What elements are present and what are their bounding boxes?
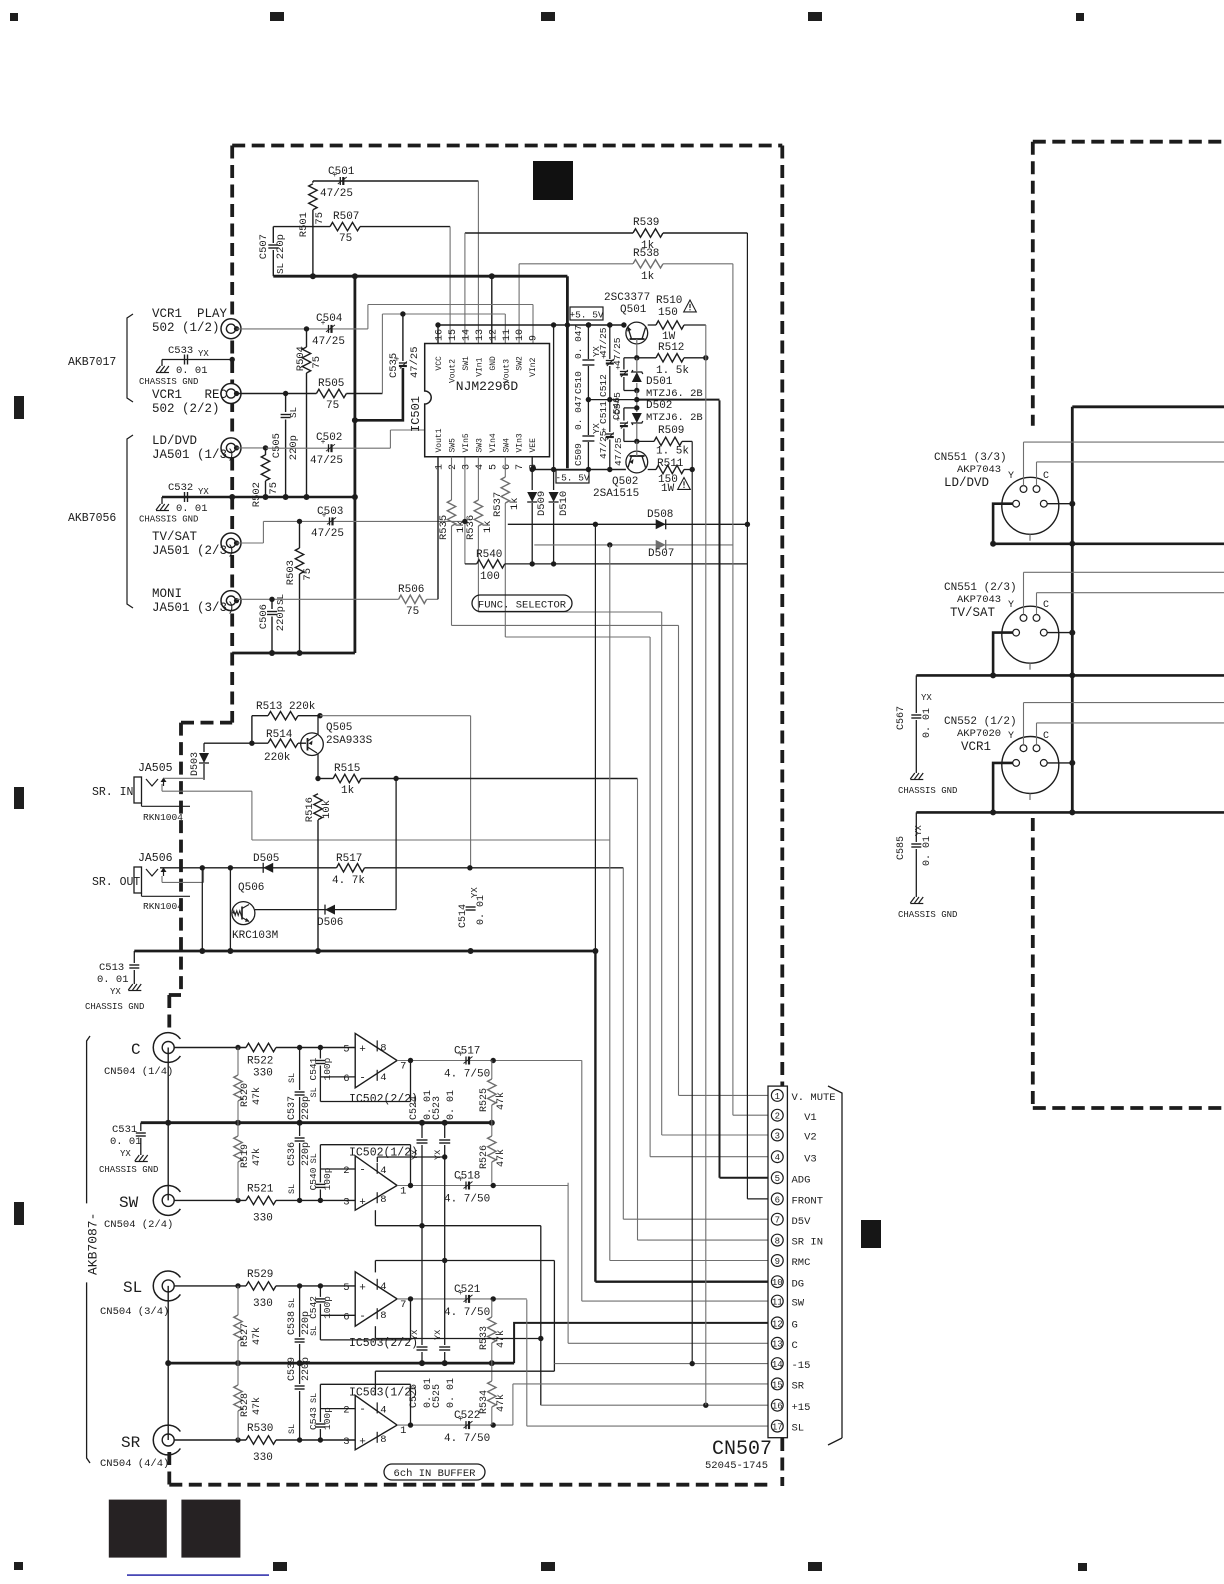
svg-text:SR. OUT: SR. OUT — [92, 876, 140, 889]
svg-text:4: 4 — [380, 1165, 386, 1177]
wire FRONT column to pin6 — [746, 233, 748, 1199]
svg-text:AKP7020: AKP7020 — [957, 728, 1001, 740]
svg-text:Q502: Q502 — [612, 476, 638, 488]
svg-text:3: 3 — [343, 1436, 349, 1448]
wire jack vertical SL-SR — [167, 1286, 169, 1440]
svg-text:1. 5k: 1. 5k — [656, 446, 689, 458]
svg-text:47/25: 47/25 — [310, 455, 343, 467]
wire TV/SAT Y — [1023, 572, 1025, 614]
svg-text:C522: C522 — [454, 1410, 480, 1422]
svg-text:GND: GND — [489, 356, 498, 371]
resistor R528 column — [237, 1363, 239, 1385]
svg-text:330: 330 — [253, 1212, 273, 1224]
svg-text:R511: R511 — [657, 458, 684, 470]
wire R512 line — [637, 357, 656, 359]
svg-text:R506: R506 — [398, 584, 424, 596]
svg-text:MTZJ6. 2B: MTZJ6. 2B — [646, 388, 703, 400]
svg-text:D508: D508 — [647, 509, 673, 521]
wire V2 column to pin3 — [661, 612, 663, 1135]
svg-text:CHASSIS GND: CHASSIS GND — [898, 910, 957, 920]
svg-text:9: 9 — [775, 1257, 780, 1267]
resistor R514 — [204, 742, 268, 744]
svg-text:RKN1004: RKN1004 — [143, 901, 183, 912]
svg-text:Vout2: Vout2 — [449, 359, 458, 383]
svg-text:YX: YX — [921, 693, 932, 703]
capacitor C541 100p — [319, 1048, 321, 1059]
svg-text:CN551 (2/3): CN551 (2/3) — [944, 582, 1017, 594]
svg-text:0. 01: 0. 01 — [446, 1378, 457, 1408]
svg-text:220p: 220p — [288, 435, 300, 460]
svg-text:C: C — [1043, 600, 1049, 611]
connector CN507 box — [768, 1086, 787, 1438]
zener D501 MTZJ6.2B — [636, 358, 638, 371]
right block dashed border — [1033, 140, 1224, 144]
CN507 pin 6 FRONT — [771, 1193, 783, 1205]
wire output line C — [397, 1060, 582, 1062]
svg-text:R539: R539 — [633, 217, 659, 229]
svg-text:R509: R509 — [658, 425, 684, 437]
diode D507 — [656, 540, 666, 550]
svg-text:R536: R536 — [465, 515, 477, 540]
svg-text:6ch IN BUFFER: 6ch IN BUFFER — [394, 1468, 477, 1480]
svg-text:330: 330 — [253, 1298, 273, 1310]
svg-text:MONI: MONI — [152, 587, 182, 601]
svg-text:47/25: 47/25 — [312, 336, 345, 348]
CN507 pin 12 G — [771, 1317, 783, 1329]
svg-text:1W: 1W — [661, 483, 675, 495]
svg-text:Y: Y — [1008, 471, 1014, 482]
CN507 pin 7 D5V — [771, 1213, 783, 1225]
capacitor C518 4.7/50 — [465, 1182, 467, 1190]
svg-text:C507: C507 — [258, 234, 270, 259]
svg-text:5: 5 — [775, 1174, 780, 1184]
resistor R504 — [306, 329, 308, 347]
svg-text:YX: YX — [470, 887, 480, 898]
svg-text:3: 3 — [343, 1196, 349, 1208]
RCA jack TV/SAT — [221, 533, 241, 553]
capacitor C517 4.7/50 — [465, 1057, 467, 1065]
resistor R519 column — [237, 1123, 239, 1136]
svg-text:CN504 (2/4): CN504 (2/4) — [104, 1219, 173, 1231]
CN507 pin 10 DG — [771, 1276, 783, 1288]
wire VCR1 gnd L — [993, 763, 1013, 813]
input jack C — [153, 1033, 180, 1063]
wire row3 to pin17 — [526, 1300, 528, 1427]
wire ADG column to pin5 — [719, 400, 721, 1177]
svg-text:C523: C523 — [432, 1096, 443, 1120]
svg-text:V3: V3 — [792, 1153, 817, 1165]
svg-text:1: 1 — [435, 464, 446, 470]
svg-text:47k: 47k — [495, 1092, 507, 1110]
svg-text:100p: 100p — [322, 1296, 333, 1319]
svg-text:R537: R537 — [492, 492, 504, 517]
svg-text:7: 7 — [400, 1061, 406, 1073]
CN507 pin 13 C — [771, 1337, 783, 1349]
bracket AKB7087 — [87, 1036, 90, 1203]
blue footer line — [127, 1574, 269, 1576]
svg-text:R502: R502 — [251, 482, 263, 507]
wire feedback loop — [410, 1299, 412, 1340]
svg-text:2: 2 — [343, 1405, 349, 1417]
capacitor C504 — [328, 325, 330, 333]
svg-text:2: 2 — [775, 1112, 780, 1122]
svg-text:SL: SL — [289, 407, 299, 418]
svg-text:10: 10 — [515, 329, 526, 341]
svg-text:0. 01: 0. 01 — [110, 1136, 142, 1148]
svg-text:C537: C537 — [287, 1096, 298, 1120]
zener D502 MTZJ6.2B — [636, 391, 638, 413]
opamp supply rail 4 — [374, 1371, 376, 1395]
svg-text:220p: 220p — [301, 1142, 312, 1166]
CN507 pin 2 V1 — [771, 1109, 783, 1121]
svg-text:R535: R535 — [438, 515, 450, 540]
capacitor C506 — [271, 599, 273, 609]
svg-text:220p: 220p — [275, 234, 287, 259]
svg-text:IC502(2/2): IC502(2/2) — [349, 1093, 418, 1106]
svg-text:D506: D506 — [317, 917, 343, 929]
svg-text:0. 01: 0. 01 — [176, 503, 208, 515]
capacitor C538 220p — [299, 1286, 301, 1337]
bracket AKB7017 — [127, 314, 133, 357]
svg-text:D507: D507 — [648, 548, 674, 560]
svg-text:VCR1 REC: VCR1 REC — [152, 388, 227, 402]
op-amp IC503(2/2) — [355, 1272, 397, 1326]
svg-text:C505: C505 — [271, 433, 283, 458]
wire row4 to pin15 — [512, 1384, 514, 1425]
svg-text:Y: Y — [1008, 600, 1014, 611]
wire jack vertical C-SW — [167, 1048, 169, 1201]
RCA jack VCR1 PLAY — [221, 319, 241, 339]
wire VCR1 right pin — [1047, 762, 1072, 764]
svg-text:4: 4 — [380, 1072, 386, 1084]
svg-text:CHASSIS GND: CHASSIS GND — [99, 1165, 158, 1175]
resistor R501 — [312, 181, 314, 183]
wire R540 line — [465, 563, 477, 565]
svg-text:0. 047: 0. 047 — [573, 396, 584, 430]
main block dashed border — [232, 144, 782, 148]
svg-text:R521: R521 — [247, 1183, 274, 1195]
svg-text:75: 75 — [326, 400, 339, 412]
svg-text:R540: R540 — [476, 549, 502, 561]
svg-text:YX: YX — [120, 1149, 131, 1159]
wire R539 line — [465, 232, 633, 234]
capacitor C567 chassis gnd — [915, 675, 917, 713]
thick bus VCR1 row — [916, 811, 1224, 814]
svg-text:47/25: 47/25 — [320, 188, 353, 200]
svg-text:+15: +15 — [792, 1402, 811, 1414]
svg-text:CN551 (3/3): CN551 (3/3) — [934, 452, 1007, 464]
capacitor C514 — [466, 906, 476, 908]
svg-text:R534: R534 — [479, 1390, 490, 1414]
svg-text:YX: YX — [914, 825, 924, 836]
wire LD/DVD Y — [1023, 442, 1025, 486]
svg-text:CHASSIS GND: CHASSIS GND — [139, 377, 198, 387]
svg-text:C512: C512 — [598, 374, 609, 397]
resistor R529 330 — [246, 1282, 276, 1290]
capacitor C539 220p — [299, 1363, 301, 1384]
resistor R540 — [477, 560, 505, 568]
svg-text:D501: D501 — [646, 376, 673, 388]
+5.5V rail — [438, 324, 626, 326]
svg-text:47k: 47k — [495, 1394, 507, 1412]
svg-text:SR. IN: SR. IN — [92, 786, 133, 799]
CN507 pin 16 +15 — [771, 1399, 783, 1411]
svg-text:SW4: SW4 — [502, 438, 511, 453]
black squares bottom — [109, 1500, 167, 1558]
input jack SL — [153, 1271, 180, 1301]
svg-text:R529: R529 — [247, 1269, 273, 1281]
svg-text:+: + — [359, 1437, 366, 1449]
wire -5.5V rail — [532, 469, 626, 471]
svg-text:IC501: IC501 — [409, 396, 423, 432]
svg-text:47/25: 47/25 — [612, 337, 623, 366]
svg-text:C518: C518 — [454, 1171, 480, 1183]
CN507 pin 14 -15 — [771, 1358, 783, 1370]
svg-text:4. 7/50: 4. 7/50 — [444, 1433, 490, 1445]
svg-text:220k: 220k — [264, 752, 291, 764]
svg-text:SL: SL — [309, 1087, 319, 1097]
opamp supply rail 2 — [374, 1261, 376, 1273]
CN507 pin 4 V3 — [771, 1151, 783, 1163]
svg-text:0. 01: 0. 01 — [476, 895, 487, 925]
CN507 pin 17 SL — [771, 1420, 783, 1432]
wire R537 column — [504, 457, 506, 477]
CN507 pin 8 SR IN — [771, 1234, 783, 1246]
svg-text:ADG: ADG — [792, 1174, 811, 1186]
diode D506 line — [255, 909, 396, 911]
resistor R509 — [637, 440, 654, 442]
svg-text:C511: C511 — [598, 401, 609, 424]
svg-text:Vout3: Vout3 — [502, 359, 511, 383]
registration marks page edges — [10, 13, 18, 21]
capacitor C521 4.7/50 — [465, 1295, 467, 1303]
svg-text:KRC103M: KRC103M — [232, 930, 278, 942]
resistor R525 column — [491, 1060, 493, 1079]
svg-text:VIn1: VIn1 — [475, 357, 484, 376]
capacitor C502 — [328, 444, 330, 452]
svg-text:R525: R525 — [479, 1088, 490, 1112]
svg-text:C: C — [792, 1340, 798, 1352]
svg-text:4. 7/50: 4. 7/50 — [444, 1069, 490, 1081]
capacitor C510 — [587, 325, 589, 359]
svg-text:Y: Y — [1008, 731, 1014, 742]
resistor R507 — [330, 222, 360, 230]
svg-text:3: 3 — [775, 1131, 780, 1141]
wire VCC pin16 — [437, 325, 439, 344]
svg-text:75: 75 — [406, 606, 419, 618]
svg-text:RKN1004: RKN1004 — [143, 812, 183, 823]
diode D505 — [263, 863, 273, 873]
wire output line SL — [397, 1298, 527, 1300]
capacitor C533 and chassis gnd — [162, 359, 232, 361]
svg-text:C533: C533 — [168, 345, 193, 357]
svg-text:47/25: 47/25 — [598, 430, 609, 459]
svg-text:CN552 (1/2): CN552 (1/2) — [944, 716, 1017, 728]
RCA jack VCR1 REC — [221, 384, 241, 404]
svg-text:VCC: VCC — [435, 356, 444, 371]
svg-text:75: 75 — [268, 482, 280, 495]
capacitor C535 — [402, 314, 404, 361]
capacitor C523 column — [444, 1123, 446, 1138]
svg-text:47k: 47k — [495, 1149, 507, 1167]
svg-text:220p: 220p — [301, 1311, 312, 1335]
svg-text:R513 220k: R513 220k — [256, 701, 316, 713]
svg-text:FRONT: FRONT — [792, 1196, 824, 1208]
svg-text:-: - — [359, 1072, 366, 1084]
wire LD/DVD gnd L — [993, 504, 1013, 544]
resistor R510 — [648, 324, 656, 326]
svg-text:SL: SL — [287, 1424, 297, 1434]
CN507 pin 5 ADG — [771, 1172, 783, 1184]
svg-text:D505: D505 — [253, 853, 279, 865]
svg-text:SL: SL — [309, 1393, 319, 1403]
svg-text:TV/SAT: TV/SAT — [152, 530, 198, 544]
svg-text:V2: V2 — [792, 1132, 817, 1144]
svg-text:2SC3377: 2SC3377 — [604, 292, 650, 304]
bracket CN507 labels — [828, 1086, 842, 1438]
svg-text:15: 15 — [772, 1380, 783, 1390]
svg-text:CHASSIS GND: CHASSIS GND — [898, 786, 957, 796]
svg-text:SR: SR — [121, 1434, 141, 1452]
svg-text:CHASSIS GND: CHASSIS GND — [85, 1002, 144, 1012]
svg-text:14: 14 — [772, 1360, 783, 1370]
svg-text:R516: R516 — [304, 797, 316, 822]
resistor R513 line — [251, 716, 253, 744]
wire LD/DVD to C502 — [237, 447, 266, 449]
svg-text:7: 7 — [400, 1299, 406, 1311]
svg-text:R526: R526 — [479, 1145, 490, 1169]
svg-text:R501: R501 — [298, 212, 310, 237]
svg-text:C524: C524 — [409, 1096, 420, 1120]
thick vertical jack bus — [353, 276, 356, 653]
capacitor C526 column — [417, 1346, 428, 1348]
DIN connector CN552 (1/2) VCR1 — [1002, 737, 1059, 794]
svg-text:R515: R515 — [334, 763, 360, 775]
svg-text:10k: 10k — [321, 800, 333, 819]
wire VCR1 C — [1036, 723, 1038, 745]
black square top — [533, 161, 573, 200]
svg-text:9: 9 — [529, 335, 540, 341]
svg-text:D509: D509 — [536, 491, 548, 516]
transistor Q506 KRC103M — [232, 902, 255, 925]
oval 6ch IN BUFFER — [384, 1464, 485, 1480]
svg-text:C514: C514 — [458, 904, 469, 928]
bottom thick line jack section — [232, 652, 355, 655]
svg-text:C517: C517 — [454, 1046, 480, 1058]
svg-text:15: 15 — [448, 329, 459, 341]
capacitor C543 100p — [319, 1384, 321, 1422]
svg-text:502 (1/2): 502 (1/2) — [152, 321, 220, 335]
transistor Q502 2SA1515 — [626, 451, 648, 473]
thick bus vertical right block — [1071, 407, 1074, 813]
registration mark mid right — [861, 1220, 881, 1248]
capacitor C513 chassis gnd — [133, 951, 135, 963]
svg-text:D5V: D5V — [792, 1216, 812, 1228]
svg-text:100: 100 — [480, 571, 500, 583]
resistor R502 — [265, 448, 267, 455]
diode D509 — [531, 457, 533, 490]
svg-text:47k: 47k — [251, 1397, 263, 1415]
svg-text:D510: D510 — [558, 491, 570, 516]
capacitor C522 4.7/50 — [465, 1421, 467, 1429]
svg-text:SL: SL — [123, 1279, 142, 1297]
svg-text:JA505: JA505 — [138, 762, 173, 775]
svg-text:R505: R505 — [318, 378, 344, 390]
svg-text:14: 14 — [461, 329, 472, 341]
svg-text:C540: C540 — [308, 1167, 319, 1190]
svg-text:CHASSIS GND: CHASSIS GND — [139, 515, 198, 525]
thick analog bus 1 — [141, 1121, 492, 1124]
svg-text:SL: SL — [276, 594, 286, 605]
svg-text:SR IN: SR IN — [792, 1237, 824, 1249]
wire V3 column to pin4 — [649, 637, 651, 1157]
thick ground bus middle — [134, 950, 596, 953]
wire D5V column to pin7 — [622, 868, 624, 1219]
svg-text:5: 5 — [343, 1282, 349, 1294]
svg-text:4. 7k: 4. 7k — [332, 875, 365, 887]
diode D510 — [553, 325, 555, 490]
op-amp IC502(2/2) — [355, 1033, 397, 1087]
wire C501 line — [313, 180, 479, 182]
CN507 pin 11 SW — [771, 1295, 783, 1307]
svg-text:8: 8 — [380, 1042, 386, 1054]
svg-text:AKP7043: AKP7043 — [957, 594, 1001, 606]
svg-text:6: 6 — [343, 1311, 349, 1323]
svg-text:C525: C525 — [432, 1384, 443, 1408]
CN507 pin 3 V2 — [771, 1129, 783, 1141]
svg-text:+: + — [359, 1197, 366, 1209]
svg-text:0. 01: 0. 01 — [446, 1090, 457, 1120]
svg-text:C502: C502 — [316, 432, 342, 444]
svg-text:10: 10 — [772, 1278, 783, 1288]
wire SR IN column to pin8 — [637, 779, 639, 1241]
svg-text:52045-1745: 52045-1745 — [705, 1460, 768, 1472]
wire R538 line — [519, 263, 633, 265]
wire LD/DVD right pin — [1047, 503, 1072, 505]
resistor R517 — [337, 864, 365, 872]
svg-text:16: 16 — [772, 1402, 783, 1412]
resistor R538 — [633, 260, 663, 268]
svg-text:Vout1: Vout1 — [435, 428, 444, 452]
svg-text:C546: C546 — [611, 397, 622, 420]
svg-text:12: 12 — [488, 329, 499, 341]
wire MONI line R506 — [237, 598, 399, 600]
capacitor C585 chassis gnd — [915, 812, 917, 842]
svg-text:4. 7/50: 4. 7/50 — [444, 1194, 490, 1206]
svg-text:R528: R528 — [240, 1393, 251, 1417]
svg-text:V. MUTE: V. MUTE — [792, 1092, 836, 1104]
svg-text:330: 330 — [253, 1452, 273, 1464]
svg-text:JA501 (1/3): JA501 (1/3) — [152, 448, 235, 462]
svg-text:VCR1: VCR1 — [961, 740, 991, 754]
wire feedback loop — [410, 1145, 412, 1186]
thick bus top right — [1072, 405, 1224, 408]
svg-text:7: 7 — [515, 464, 526, 470]
svg-text:VIn4: VIn4 — [489, 433, 498, 452]
capacitor C511 — [609, 400, 611, 432]
capacitor C536 220p — [299, 1123, 301, 1136]
resistor R530 330 — [246, 1436, 276, 1444]
svg-text:-5. 5V: -5. 5V — [555, 473, 590, 484]
svg-text:47/25: 47/25 — [598, 327, 609, 356]
svg-text:Q501: Q501 — [620, 304, 647, 316]
wire D507 line — [534, 544, 733, 546]
svg-text:6: 6 — [775, 1195, 780, 1205]
svg-text:6: 6 — [343, 1073, 349, 1085]
op-amp IC502(1/2) — [355, 1156, 397, 1210]
svg-text:SL: SL — [287, 1073, 297, 1083]
svg-text:YX: YX — [198, 349, 209, 359]
